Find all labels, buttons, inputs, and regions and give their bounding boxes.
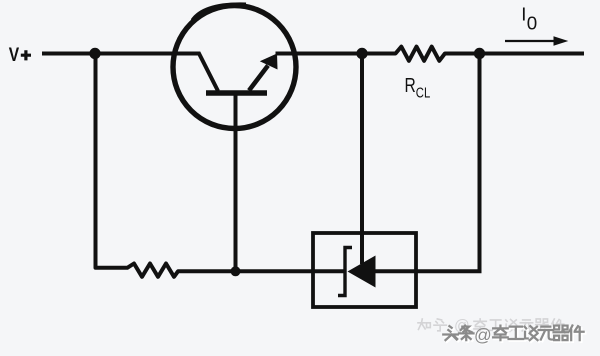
svg-text:I: I <box>521 4 526 25</box>
svg-text:@: @ <box>474 325 492 345</box>
svg-text:R: R <box>405 74 416 96</box>
svg-text:CL: CL <box>416 84 430 101</box>
svg-text:0: 0 <box>527 13 537 34</box>
svg-text:V: V <box>9 43 20 65</box>
